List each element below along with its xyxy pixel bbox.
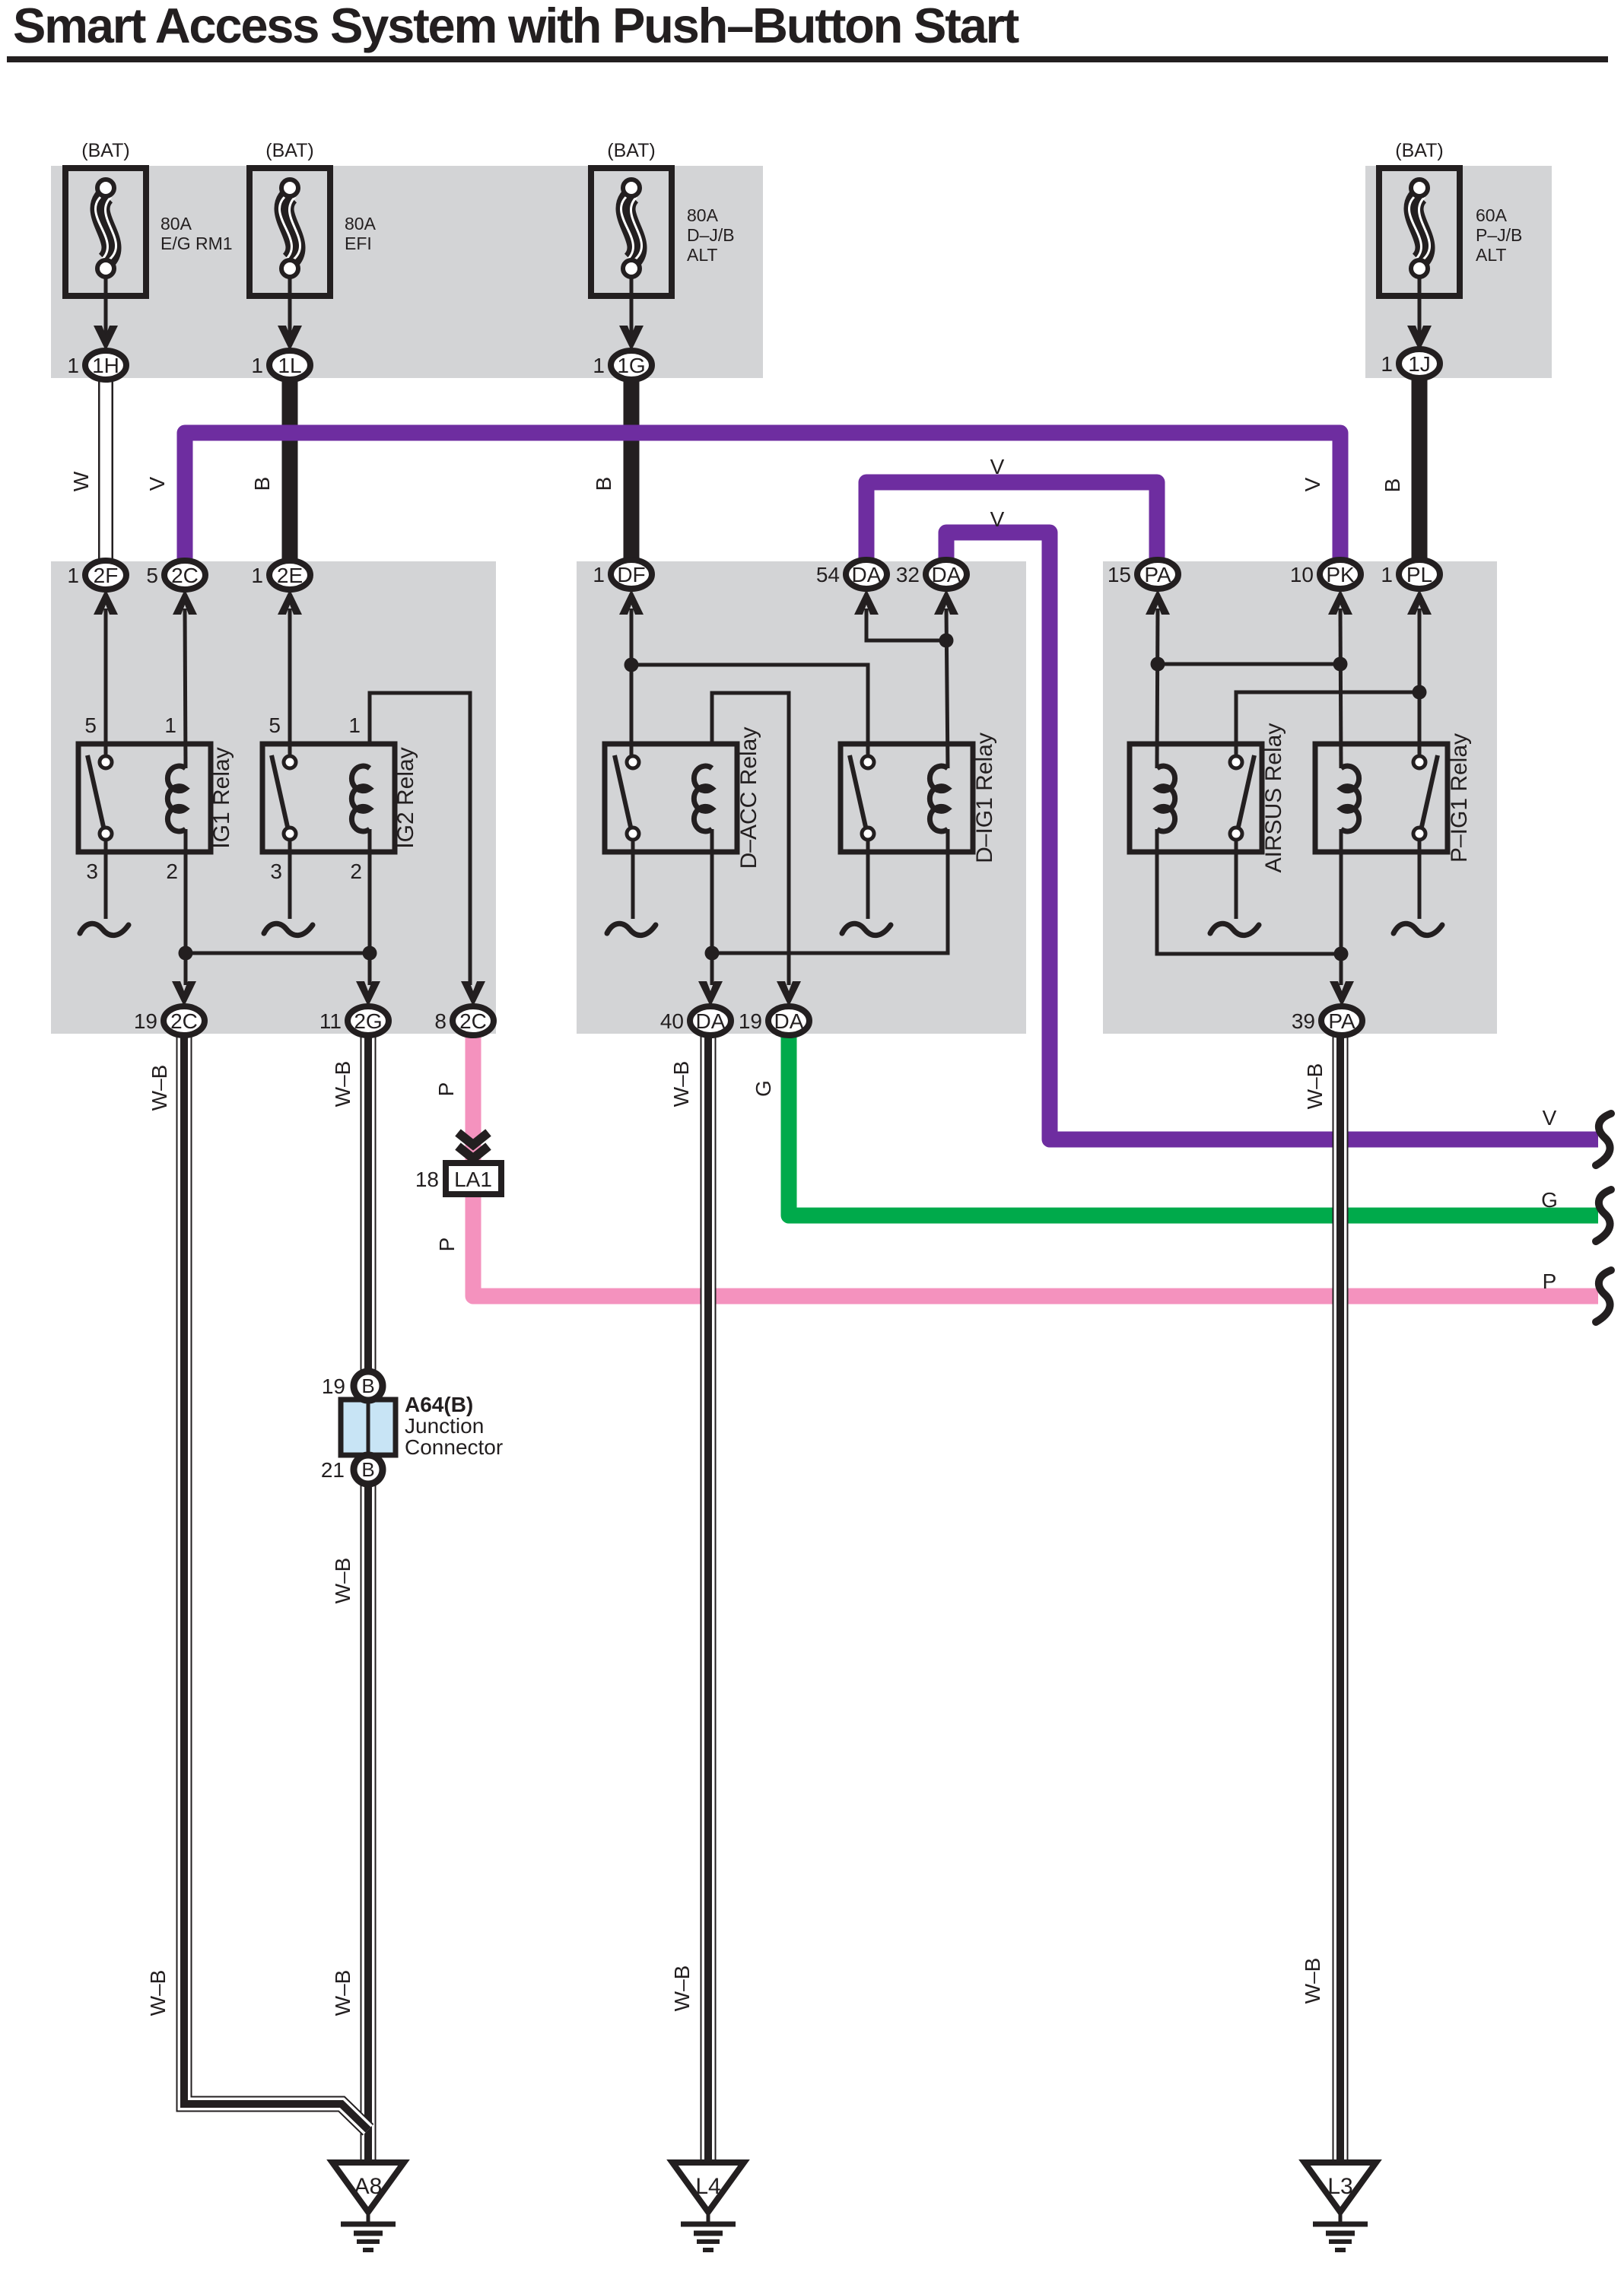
arrow into DA54 xyxy=(854,589,879,615)
svg-text:W–B: W–B xyxy=(670,1966,694,2012)
svg-text:E/G RM1: E/G RM1 xyxy=(160,234,233,253)
svg-text:V: V xyxy=(1301,477,1324,491)
svg-text:PA: PA xyxy=(1144,563,1171,586)
wire 2F to IG1 switch pin 5 xyxy=(104,609,108,756)
svg-text:1: 1 xyxy=(164,713,176,737)
break symbol V wire xyxy=(1596,1114,1611,1165)
break P-IG1 switch xyxy=(1394,923,1442,935)
svg-text:B: B xyxy=(250,477,274,491)
wire D-ACC switch to break xyxy=(631,840,635,919)
arrow into 2C19 xyxy=(172,981,196,1006)
svg-text:B: B xyxy=(592,477,615,491)
svg-text:B: B xyxy=(361,1374,374,1397)
fuse label 60A P-J/B ALT xyxy=(1476,205,1522,265)
connector 2C pin 8 xyxy=(434,1006,494,1035)
svg-text:W–B: W–B xyxy=(331,1558,354,1604)
svg-text:W–B: W–B xyxy=(148,1065,171,1111)
wire P-IG1 switch to break xyxy=(1418,840,1422,919)
svg-text:(BAT): (BAT) xyxy=(1395,140,1443,161)
wire W-B from 39 PA to L3 xyxy=(1333,1034,1349,2163)
connector 2F xyxy=(67,561,126,589)
svg-text:L4: L4 xyxy=(695,2174,720,2199)
connector PK pin 10 xyxy=(1290,560,1361,589)
break D-ACC switch xyxy=(607,923,656,935)
wire D-IG1 coil return xyxy=(712,829,948,953)
svg-text:W–B: W–B xyxy=(331,1970,354,2016)
break D-IG1 switch xyxy=(842,923,891,935)
svg-text:54: 54 xyxy=(816,563,840,586)
svg-text:2: 2 xyxy=(350,860,362,883)
node DF branch xyxy=(624,658,639,672)
svg-text:Smart Access System with Push–: Smart Access System with Push–Button Sta… xyxy=(13,0,1019,53)
wire D-ACC coil pin riser to 19 DA xyxy=(712,693,789,985)
svg-text:PK: PK xyxy=(1326,563,1355,586)
svg-text:W–B: W–B xyxy=(669,1061,693,1107)
svg-text:W–B: W–B xyxy=(1303,1063,1327,1110)
arrow into PA39 xyxy=(1330,981,1354,1006)
svg-text:D–IG1 Relay: D–IG1 Relay xyxy=(972,732,997,863)
svg-text:A64(B): A64(B) xyxy=(405,1393,473,1416)
wire V from 32 DA to right edge xyxy=(946,532,1598,1139)
svg-text:Junction: Junction xyxy=(405,1414,484,1438)
svg-text:ALT: ALT xyxy=(1476,245,1506,265)
break IG2 pin 3 xyxy=(264,923,313,935)
node D-ACC coil return xyxy=(705,946,720,961)
svg-text:Connector: Connector xyxy=(405,1435,503,1459)
svg-text:W–B: W–B xyxy=(331,1061,354,1107)
svg-text:2F: 2F xyxy=(94,564,119,587)
wire D-ACC coil return down xyxy=(710,829,714,985)
svg-text:1: 1 xyxy=(348,713,361,737)
relay IG1 xyxy=(78,713,234,883)
svg-text:1: 1 xyxy=(251,354,263,377)
wire W-B from 19 2C to A8 xyxy=(184,1034,368,2130)
wire 54 DA down xyxy=(866,609,946,640)
svg-text:1H: 1H xyxy=(92,354,119,377)
node IG2 coil return xyxy=(363,946,377,961)
wire DF down to D-ACC switch xyxy=(630,609,634,756)
title underline xyxy=(7,56,1608,62)
wire 2C to IG1 coil pin 1 xyxy=(185,609,186,768)
junction block band (top left) xyxy=(51,166,763,378)
svg-text:DF: DF xyxy=(617,563,645,586)
relay D-ACC xyxy=(605,727,761,869)
svg-text:IG2 Relay: IG2 Relay xyxy=(393,747,418,848)
arrow into DA40 xyxy=(698,981,723,1006)
svg-text:A8: A8 xyxy=(354,2174,383,2199)
arrow into DA19 xyxy=(777,981,801,1006)
svg-text:P: P xyxy=(434,1082,458,1097)
svg-text:8: 8 xyxy=(434,1009,447,1033)
node PL branch xyxy=(1413,685,1427,700)
svg-text:L3: L3 xyxy=(1327,2174,1352,2199)
svg-text:15: 15 xyxy=(1108,563,1131,586)
svg-text:G: G xyxy=(752,1080,775,1097)
svg-text:1: 1 xyxy=(1381,352,1393,376)
svg-text:21: 21 xyxy=(321,1458,345,1482)
connector DA pin 40 xyxy=(660,1006,731,1035)
svg-text:P–J/B: P–J/B xyxy=(1476,225,1522,245)
svg-text:PL: PL xyxy=(1406,563,1432,586)
node coil return join xyxy=(1334,947,1349,961)
wire AIRSUS switch to break xyxy=(1235,840,1238,919)
connector LA1 pin 18 xyxy=(415,1163,501,1194)
svg-text:IG1 Relay: IG1 Relay xyxy=(209,747,234,848)
node PA branch xyxy=(1151,657,1165,672)
svg-text:19: 19 xyxy=(322,1374,345,1398)
svg-text:DA: DA xyxy=(774,1009,804,1033)
connector DA pin 32 xyxy=(896,560,967,589)
connector PA pin 39 xyxy=(1292,1006,1362,1035)
node PK branch xyxy=(1333,657,1348,672)
svg-text:2: 2 xyxy=(166,860,178,883)
svg-text:G: G xyxy=(1541,1188,1558,1212)
svg-text:B: B xyxy=(361,1458,374,1481)
arrow into 2F xyxy=(94,589,118,615)
svg-text:W: W xyxy=(69,471,93,491)
svg-text:ALT: ALT xyxy=(687,245,717,265)
arrow into PA15 xyxy=(1146,589,1170,615)
svg-text:2E: 2E xyxy=(277,564,303,587)
svg-text:B: B xyxy=(1381,478,1404,493)
node IG1 coil return xyxy=(179,946,193,961)
svg-text:D–J/B: D–J/B xyxy=(687,225,735,245)
wire 10 PK to P-IG1 coil xyxy=(1340,609,1341,768)
wire IG2 coil pin 1 riser xyxy=(370,693,470,985)
svg-text:60A: 60A xyxy=(1476,205,1508,225)
wire IG1 pin 3 to break xyxy=(104,840,108,919)
svg-text:1: 1 xyxy=(67,354,79,377)
connector 2C pin 5 xyxy=(146,561,205,589)
svg-text:11: 11 xyxy=(319,1009,342,1033)
svg-text:(BAT): (BAT) xyxy=(81,140,129,161)
node DA join xyxy=(939,634,954,648)
svg-text:5: 5 xyxy=(269,713,281,737)
fuse 80A E/G RM1 xyxy=(65,140,146,351)
svg-text:DA: DA xyxy=(852,563,882,586)
wire V main from 2C to 10 PK xyxy=(185,433,1340,561)
fuse 60A P-J/B ALT xyxy=(1379,140,1460,351)
relay block band (center: D-ACC/D-IG1) xyxy=(577,561,1026,1034)
wire D-IG1 switch to break xyxy=(866,840,870,919)
svg-text:V: V xyxy=(990,455,1005,478)
svg-text:5: 5 xyxy=(146,564,158,587)
svg-text:2C: 2C xyxy=(459,1009,487,1033)
relay block band (left: IG1/IG2) xyxy=(51,561,496,1034)
connector PA pin 15 xyxy=(1108,560,1178,589)
svg-text:V: V xyxy=(1543,1106,1557,1130)
svg-text:18: 18 xyxy=(415,1168,439,1191)
svg-text:1: 1 xyxy=(251,564,263,587)
svg-text:1L: 1L xyxy=(278,354,301,377)
svg-text:1J: 1J xyxy=(1408,352,1431,376)
svg-text:1G: 1G xyxy=(617,354,645,377)
arrow into 2G xyxy=(356,981,380,1006)
connector 1L xyxy=(251,351,310,380)
svg-text:2C: 2C xyxy=(171,564,199,587)
svg-text:D–ACC Relay: D–ACC Relay xyxy=(736,727,761,869)
connector 1G xyxy=(593,351,652,380)
wire 1 PL down to P-IG1 switch xyxy=(1418,609,1422,756)
svg-text:40: 40 xyxy=(660,1009,684,1033)
svg-text:P: P xyxy=(435,1238,459,1252)
ground L4 xyxy=(672,2163,744,2250)
wire P from 8 2C to right edge xyxy=(473,1034,1598,1296)
wire P-IG1 coil return down xyxy=(1340,829,1343,985)
svg-text:EFI: EFI xyxy=(345,234,372,253)
wire IG1 coil pin 2 down xyxy=(184,829,188,985)
wire W from 1H to 2F xyxy=(98,380,113,561)
svg-text:W–B: W–B xyxy=(146,1970,170,2016)
svg-text:P–IG1 Relay: P–IG1 Relay xyxy=(1447,733,1472,863)
svg-text:LA1: LA1 xyxy=(454,1168,492,1191)
svg-text:3: 3 xyxy=(270,860,282,883)
fuse label 80A EFI xyxy=(345,214,377,253)
wire W-B from 40 DA to L4 xyxy=(701,1034,717,2163)
wire B from 1J to PL xyxy=(1412,377,1428,560)
wire 2E to IG2 switch pin 5 xyxy=(288,609,292,756)
wire AIRSUS coil return xyxy=(1157,829,1341,954)
connector DA pin 19 xyxy=(739,1006,809,1035)
svg-text:1: 1 xyxy=(1381,563,1393,586)
wire B from 1G to DF xyxy=(624,379,640,561)
wire PL branch to AIRSUS switch xyxy=(1236,692,1419,756)
connector DA pin 54 xyxy=(816,560,887,589)
svg-text:80A: 80A xyxy=(345,214,377,234)
svg-text:1: 1 xyxy=(593,563,605,586)
arrow pair into LA1 xyxy=(458,1133,488,1158)
ground L3 xyxy=(1305,2163,1376,2250)
svg-text:80A: 80A xyxy=(160,214,192,234)
svg-text:AIRSUS Relay: AIRSUS Relay xyxy=(1261,723,1286,873)
svg-text:2C: 2C xyxy=(170,1009,198,1033)
wire 32 DA to D-IG1 coil xyxy=(946,609,948,768)
break IG1 pin 3 xyxy=(80,923,129,935)
arrow into PK xyxy=(1328,589,1352,615)
relay P-IG1 xyxy=(1315,733,1472,863)
wire DF branch to D-IG1 switch xyxy=(631,665,868,756)
wire IG2 coil pin 2 down xyxy=(368,829,372,985)
svg-text:1: 1 xyxy=(593,354,605,377)
svg-text:19: 19 xyxy=(134,1009,157,1033)
junction block band (top right) xyxy=(1365,166,1552,378)
relay AIRSUS xyxy=(1130,723,1286,873)
wire V from 54 DA to 15 PA xyxy=(866,482,1157,561)
svg-text:V: V xyxy=(145,476,169,491)
svg-text:(BAT): (BAT) xyxy=(607,140,655,161)
arrow into 2E xyxy=(278,589,302,615)
svg-text:DA: DA xyxy=(932,563,961,586)
arrow into 2C xyxy=(173,589,197,615)
svg-text:19: 19 xyxy=(739,1009,762,1033)
fuse label 80A E/G RM1 xyxy=(160,214,233,253)
arrow into 2C8 xyxy=(461,981,485,1006)
arrow into PL xyxy=(1407,589,1432,615)
relay IG2 xyxy=(262,713,418,883)
arrow into DA32 xyxy=(934,589,958,615)
fuse 80A EFI xyxy=(249,140,330,351)
break symbol G wire xyxy=(1596,1190,1611,1241)
connector PL pin 1 xyxy=(1381,560,1440,589)
svg-text:PA: PA xyxy=(1328,1009,1355,1033)
svg-text:V: V xyxy=(990,507,1005,531)
svg-text:(BAT): (BAT) xyxy=(265,140,313,161)
svg-text:2G: 2G xyxy=(354,1009,382,1033)
svg-text:3: 3 xyxy=(86,860,98,883)
break symbol P wire xyxy=(1596,1270,1611,1322)
ground A8 xyxy=(332,2163,404,2250)
svg-text:10: 10 xyxy=(1290,563,1314,586)
wire IG2 pin 3 to break xyxy=(288,840,292,919)
break AIRSUS switch xyxy=(1210,923,1259,935)
fuse 80A D-J/B ALT xyxy=(591,140,672,351)
connector 1H xyxy=(67,351,126,380)
junction connector A64(B) xyxy=(321,1371,503,1484)
wire PA-PK join xyxy=(1158,663,1340,666)
svg-text:39: 39 xyxy=(1292,1009,1315,1033)
svg-text:5: 5 xyxy=(84,713,97,737)
wire B from 1L to 2E xyxy=(282,379,298,561)
connector 2C pin 19 xyxy=(134,1006,205,1035)
fuse label 80A D-J/B ALT xyxy=(687,205,735,265)
connector 1J xyxy=(1381,349,1440,378)
svg-text:32: 32 xyxy=(896,563,920,586)
svg-text:W–B: W–B xyxy=(1301,1958,1324,2004)
wire W-B from 11 2G to A8 xyxy=(361,1034,377,2163)
svg-text:80A: 80A xyxy=(687,205,719,225)
connector 2G pin 11 xyxy=(319,1006,389,1035)
wire G from 19 DA to right edge xyxy=(789,1034,1598,1216)
svg-text:1: 1 xyxy=(67,564,79,587)
svg-text:DA: DA xyxy=(696,1009,726,1033)
relay D-IG1 xyxy=(841,732,997,863)
connector 2E xyxy=(251,561,310,589)
connector DF xyxy=(593,560,652,589)
relay block band (right: AIRSUS/P-IG1) xyxy=(1103,561,1497,1034)
arrow into DF xyxy=(619,589,644,615)
wire joining IG1/IG2 coil returns xyxy=(186,952,370,955)
wire 15 PA to AIRSUS coil xyxy=(1157,609,1158,768)
svg-text:P: P xyxy=(1543,1270,1557,1293)
